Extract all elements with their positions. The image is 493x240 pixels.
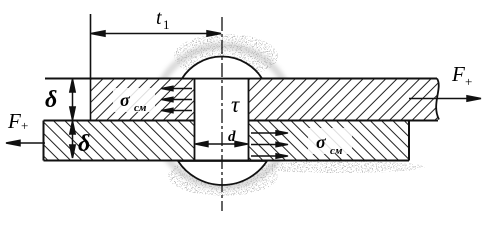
lower plate right section (hatched \) <box>249 121 409 161</box>
sigma_cm upper label <box>113 88 155 114</box>
lower plate bottom edge <box>44 160 410 162</box>
upper plate right end (break edge) <box>436 79 439 120</box>
svg-text:F: F <box>451 62 465 86</box>
svg-text:+: + <box>465 74 472 89</box>
svg-text:d: d <box>228 129 236 145</box>
svg-text:+: + <box>21 118 28 133</box>
lower plate right end <box>408 121 410 161</box>
upper plate left end + t1 extension line <box>90 14 92 120</box>
t1 dimension line <box>91 31 221 36</box>
upper plate left section (hatched /) <box>91 79 194 121</box>
bearing stress arrows upper (pointing left) <box>161 86 192 113</box>
upper plate right section (hatched /) <box>249 79 439 120</box>
svg-text:F: F <box>7 109 21 133</box>
rivet head (top) <box>182 57 262 79</box>
svg-text:t: t <box>156 7 162 29</box>
bearing stress arrows lower (pointing right) <box>251 131 288 159</box>
svg-text:см: см <box>134 102 147 114</box>
lower plate left section (hatched \) <box>44 121 195 161</box>
svg-text:σ: σ <box>120 90 131 110</box>
rivet centerline <box>221 17 223 211</box>
left force arrow <box>6 140 45 145</box>
upper delta dimension <box>70 79 75 120</box>
svg-text:σ: σ <box>316 132 327 152</box>
svg-text:τ: τ <box>231 92 240 117</box>
plate junction line <box>44 120 439 122</box>
svg-text:1: 1 <box>163 17 170 32</box>
sigma_cm lower label <box>308 128 352 157</box>
svg-text:δ: δ <box>78 131 90 157</box>
lower plate left end <box>43 121 45 161</box>
svg-text:см: см <box>330 145 343 157</box>
lower delta dimension <box>70 121 75 158</box>
rivet shank <box>195 80 249 160</box>
d dimension <box>195 141 248 146</box>
svg-text:δ: δ <box>45 87 57 113</box>
right force arrow <box>409 96 481 101</box>
plate outline: upper plate top edge <box>45 78 437 80</box>
rivet head (bottom) <box>178 161 267 185</box>
